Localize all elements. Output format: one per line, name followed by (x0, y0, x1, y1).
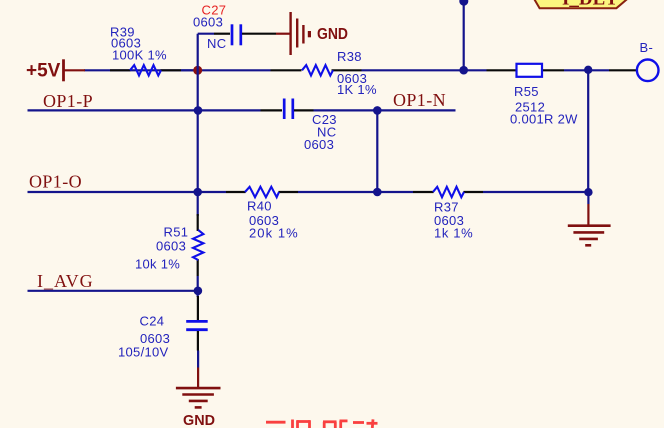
svg-text:NC: NC (207, 36, 226, 51)
svg-text:0603: 0603 (193, 15, 223, 30)
junction top of I_DET drop (459, 0, 468, 6)
wire I_DET vertical drop (463, 0, 465, 70)
junction OP1-O / GND branch (584, 188, 592, 196)
wire OP1-O row (28, 191, 589, 193)
svg-text:105/10V: 105/10V (118, 345, 169, 360)
resistor R37 (413, 187, 483, 241)
svg-text:0.001R 2W: 0.001R 2W (510, 112, 578, 127)
svg-text:1K 1%: 1K 1% (337, 82, 377, 97)
junction OP1-O / vertical branch (193, 188, 202, 197)
junction R55 / B- branch (584, 66, 592, 74)
svg-text:+5V: +5V (26, 61, 61, 82)
svg-text:R55: R55 (514, 84, 539, 99)
power port GND (right, earth style) (568, 192, 611, 245)
power port GND (bottom, earth style) (176, 368, 221, 428)
resistor R40 (226, 187, 298, 241)
svg-text:I_AVG: I_AVG (37, 271, 94, 291)
wire vertical OP1-N to OP1-O (376, 110, 378, 192)
svg-text:R40: R40 (247, 199, 272, 214)
svg-text:GND: GND (183, 412, 215, 428)
svg-text:20k 1%: 20k 1% (249, 226, 298, 241)
svg-text:GND: GND (317, 26, 348, 43)
junction OP1-N / vertical to OP1-O (373, 106, 382, 115)
capacitor C24 (vertical) (118, 296, 208, 360)
svg-text:R38: R38 (337, 49, 362, 64)
svg-text:C24: C24 (140, 314, 165, 329)
svg-text:1k 1%: 1k 1% (434, 226, 473, 241)
svg-text:OP1-N: OP1-N (393, 90, 446, 110)
wire to port B- (609, 69, 637, 71)
resistor R39 (110, 25, 181, 76)
wire vertical main branch x=197.7 (197, 34, 199, 297)
resistor R38 (271, 49, 377, 97)
svg-text:100K 1%: 100K 1% (112, 48, 167, 63)
capacitor C27 (193, 3, 276, 52)
capacitor C23 (261, 99, 337, 153)
svg-text:0603: 0603 (304, 137, 334, 152)
junction I_AVG / vertical branch (194, 287, 203, 296)
port B- (circle) (637, 40, 659, 81)
junction +5V/R39 (red) (193, 66, 202, 75)
svg-text:OP1-P: OP1-P (43, 91, 93, 111)
junction OP1-P / vertical branch (194, 106, 203, 115)
wire C24 to GND (197, 351, 199, 368)
svg-text:R51: R51 (164, 225, 189, 240)
svg-text:I_DET: I_DET (562, 0, 618, 9)
svg-text:OP1-O: OP1-O (29, 172, 82, 192)
wire OP1-P row (28, 109, 456, 111)
caption 三相驱动 (clipped red strokes) (266, 419, 378, 428)
wire vertical B- branch to OP1-O (587, 70, 589, 192)
svg-text:0603: 0603 (156, 239, 186, 254)
junction I_DET drop / +5V rail (459, 66, 468, 75)
resistor R55 (487, 64, 579, 127)
svg-text:10k 1%: 10k 1% (135, 257, 180, 272)
power port +5V (26, 59, 85, 81)
svg-text:B-: B- (640, 40, 654, 55)
wire I_AVG row (28, 290, 199, 292)
power port GND (top, bar style) (276, 12, 348, 55)
port I_DET (yellow flag) (533, 0, 630, 9)
resistor R51 (vertical) (135, 214, 203, 276)
junction OP1-O / OP1-N vertical (373, 188, 382, 197)
wire +5V rail horizontal (84, 69, 609, 71)
